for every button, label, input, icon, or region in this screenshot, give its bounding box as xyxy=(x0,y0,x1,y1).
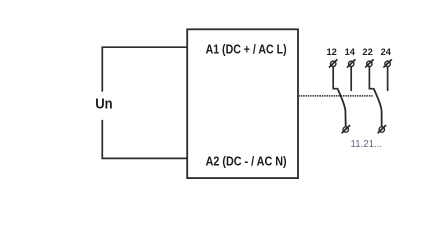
relay coil box A1/A2 xyxy=(187,29,298,178)
svg-text:22: 22 xyxy=(362,47,372,57)
fixed contact lead 22 xyxy=(369,67,374,89)
wire top supply to A1 xyxy=(102,47,187,91)
svg-text:12: 12 xyxy=(327,47,337,57)
fixed contact lead 12 xyxy=(333,67,338,89)
terminal 11 (common) xyxy=(342,125,350,133)
svg-text:A1 (DC + / AC L): A1 (DC + / AC L) xyxy=(206,41,287,56)
svg-text:11.21...: 11.21... xyxy=(351,138,383,150)
terminal 24 xyxy=(383,59,391,67)
movable contact arm 11-12 xyxy=(338,89,346,127)
svg-text:A2 (DC - / AC N): A2 (DC - / AC N) xyxy=(206,153,287,168)
svg-text:14: 14 xyxy=(345,47,356,57)
terminal 14 xyxy=(347,59,355,67)
wire bottom supply to A2 xyxy=(102,120,187,158)
fixed contact lead 24 xyxy=(387,67,389,91)
terminal 12 xyxy=(329,59,337,67)
mechanical linkage dotted line xyxy=(298,95,373,97)
svg-text:Un: Un xyxy=(95,97,112,113)
terminal 22 xyxy=(365,59,373,67)
svg-text:24: 24 xyxy=(381,47,392,57)
terminal 21 (common) xyxy=(378,125,386,133)
fixed contact lead 14 xyxy=(350,67,352,91)
movable contact arm 21-22 xyxy=(374,89,382,127)
